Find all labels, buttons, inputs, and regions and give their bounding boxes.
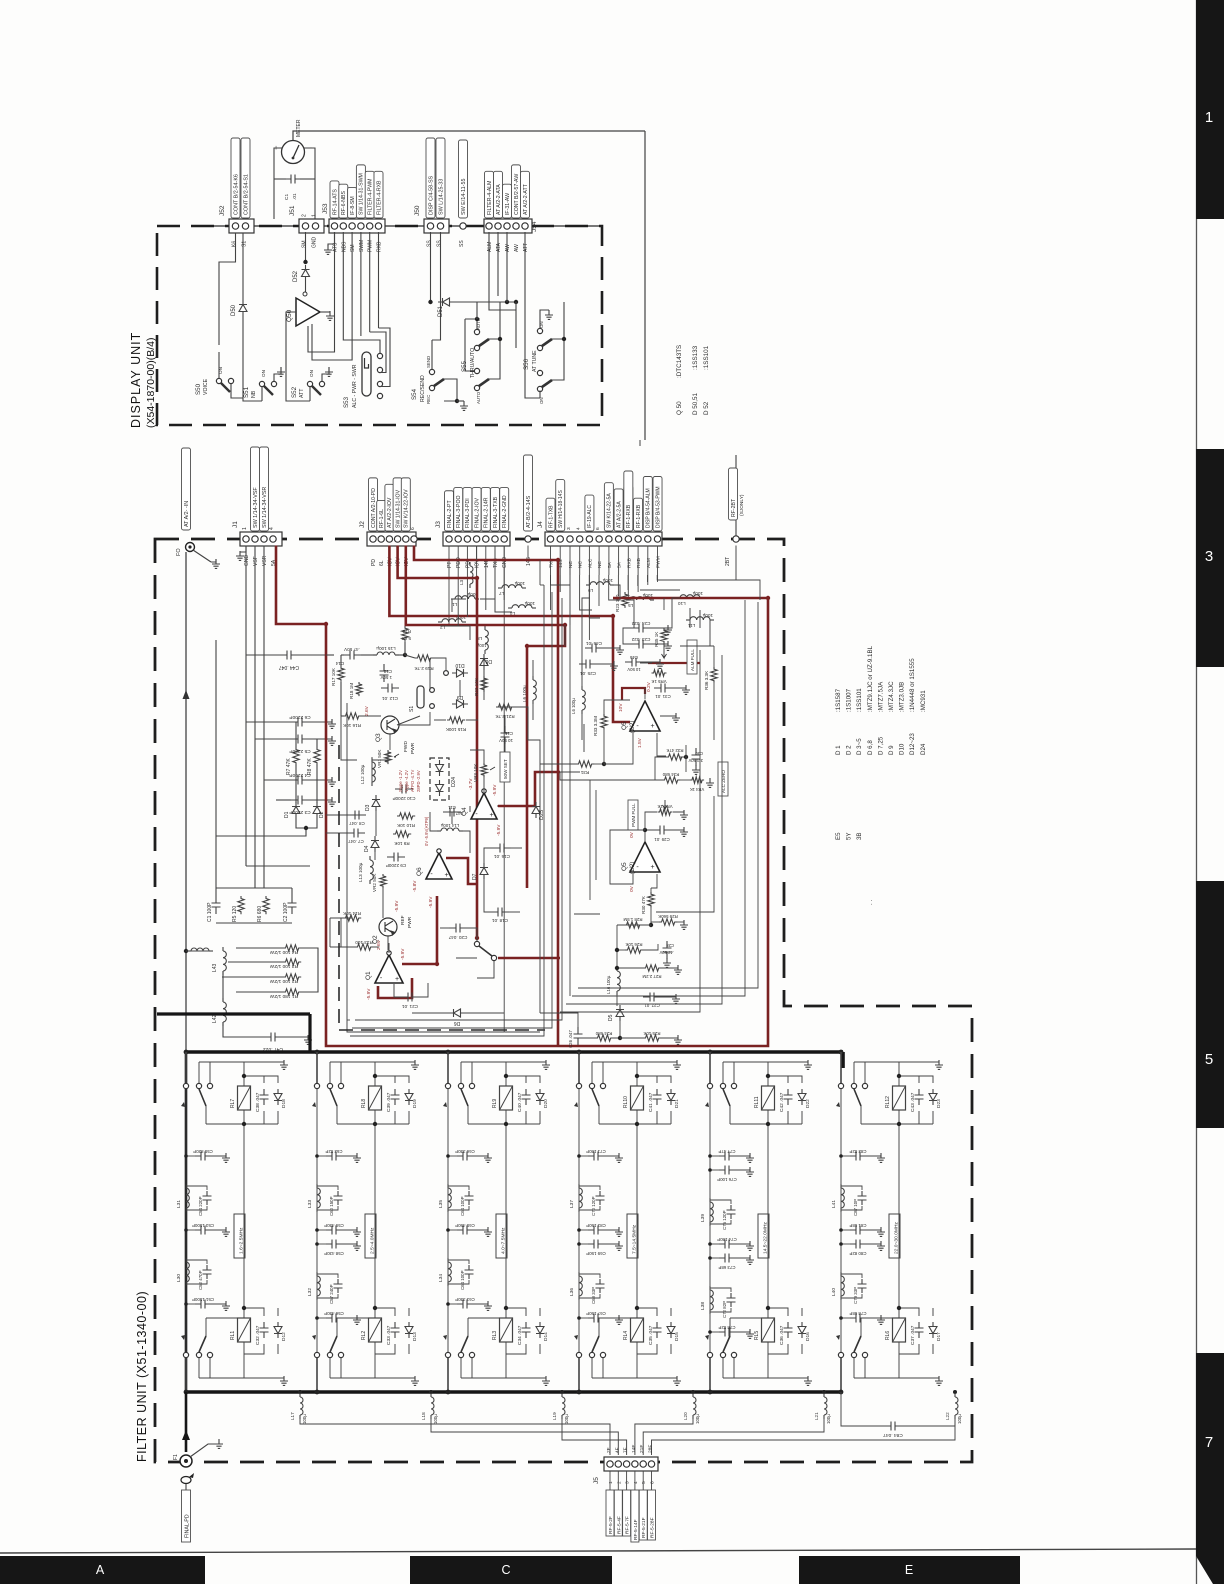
resistor R28 1.5M xyxy=(624,922,642,928)
svg-text:D16: D16 xyxy=(805,1332,811,1341)
svg-text:GND: GND xyxy=(502,557,508,569)
svg-text:PT: PT xyxy=(447,562,453,568)
wire filter top bus xyxy=(186,1050,843,1054)
svg-text:C68 33P: C68 33P xyxy=(591,1287,596,1304)
wire left mesh xyxy=(246,721,291,723)
wire channel 4 ladder xyxy=(578,1089,580,1352)
svg-text:FINAL-PD: FINAL-PD xyxy=(185,1514,191,1538)
wire maroon E xyxy=(414,546,558,1047)
svg-text:C66 330P: C66 330P xyxy=(455,1149,475,1154)
capacitor C52 470P xyxy=(203,1265,212,1279)
svg-text:SW 1/14-34-VSF: SW 1/14-34-VSF xyxy=(253,487,259,528)
svg-text:RL12: RL12 xyxy=(885,1096,891,1108)
svg-text:C52 470P: C52 470P xyxy=(198,1270,203,1290)
resistor R4 100 1/2W xyxy=(283,945,301,951)
boxed label ALM FULL xyxy=(687,640,697,674)
svg-text:(2/2): (2/2) xyxy=(630,721,636,733)
capacitor C22 100u xyxy=(581,686,583,690)
diode D17 xyxy=(929,1327,937,1334)
svg-text:CONT B/2-54-K6: CONT B/2-54-K6 xyxy=(233,174,239,215)
svg-text:FINAL-2-IOV: FINAL-2-IOV xyxy=(474,497,480,528)
svg-text:D12~23: D12~23 xyxy=(909,733,916,755)
svg-text:PWM FULL: PWM FULL xyxy=(631,803,636,827)
diode D4 xyxy=(371,841,379,848)
svg-text:J5: J5 xyxy=(593,1477,600,1484)
switch channel 4 bottom xyxy=(576,1352,581,1357)
svg-text:SW K/14-22-5A: SW K/14-22-5A xyxy=(607,493,613,528)
svg-text:SS: SS xyxy=(437,240,443,247)
svg-text:14F: 14F xyxy=(631,1445,637,1453)
label IF-8-SM xyxy=(348,187,357,218)
svg-text:L10: L10 xyxy=(678,601,686,606)
capacitor C1 .01 xyxy=(284,178,302,180)
svg-text:NC: NC xyxy=(578,561,584,568)
svg-text:6: 6 xyxy=(650,1481,656,1484)
wire left rail xyxy=(185,552,187,1052)
svg-text:6: 6 xyxy=(595,527,601,530)
svg-text::MTZ9.1JC or UZ-9.1BL: :MTZ9.1JC or UZ-9.1BL xyxy=(867,645,874,712)
switch channel 5 top xyxy=(708,1050,713,1055)
svg-text:C60 150P: C60 150P xyxy=(329,1196,334,1216)
capacitor C24 .022 xyxy=(632,627,650,629)
svg-text:D24: D24 xyxy=(920,743,927,755)
svg-text:ATA: ATA xyxy=(496,242,502,252)
svg-text:D 2: D 2 xyxy=(846,745,853,755)
capacitor C65 450P xyxy=(457,1229,473,1231)
svg-text:RL5: RL5 xyxy=(754,1331,760,1340)
wire Q5b mesh xyxy=(645,830,653,842)
svg-text:5Y: 5Y xyxy=(846,832,853,840)
capacitor C30 3.3 50V xyxy=(692,748,701,766)
svg-text:S52: S52 xyxy=(291,386,298,398)
svg-text:FINAL-2-14R: FINAL-2-14R xyxy=(484,497,490,528)
wire channel 2 bottom links xyxy=(375,1308,395,1316)
switch channel 2 bottom xyxy=(314,1352,319,1357)
svg-text:D10: D10 xyxy=(455,662,464,668)
svg-text:C72 82P: C72 82P xyxy=(722,1301,727,1318)
svg-text:R28 1.5M: R28 1.5M xyxy=(623,917,642,922)
relay RL5 xyxy=(762,1318,775,1342)
junction left rail xyxy=(184,949,188,953)
svg-text:D7: D7 xyxy=(472,873,478,880)
svg-text::1SS133: :1SS133 xyxy=(692,345,699,370)
svg-text:C9 2200P: C9 2200P xyxy=(386,863,406,868)
svg-text:AT A/2-2-ATA: AT A/2-2-ATA xyxy=(496,184,502,215)
capacitor C51 1500P xyxy=(195,1303,211,1305)
label FINAL-3-POO xyxy=(454,488,463,531)
svg-text:R27 2.2M: R27 2.2M xyxy=(642,974,661,979)
svg-text:C6 2200P: C6 2200P xyxy=(289,714,310,720)
svg-text:S1: S1 xyxy=(242,241,248,247)
svg-text:100µ: 100µ xyxy=(564,1414,569,1424)
svg-text:D4: D4 xyxy=(364,845,370,852)
index bar bottom A xyxy=(0,1556,205,1584)
capacitor C59 430P xyxy=(326,1229,342,1231)
wire J50 down xyxy=(430,232,432,302)
wire L18 to J5 xyxy=(431,1415,618,1455)
svg-text:IF-31-AW: IF-31-AW xyxy=(505,193,511,215)
connector J51 xyxy=(299,219,324,233)
svg-text:R5 120: R5 120 xyxy=(232,906,238,922)
svg-text:RF-1-6L: RF-1-6L xyxy=(379,509,385,528)
wire maroon J xyxy=(498,957,560,960)
svg-text:D 3~5: D 3~5 xyxy=(856,738,863,755)
capacitor C64 100P xyxy=(465,1191,474,1205)
svg-text:FINAL-3-TXB: FINAL-3-TXB xyxy=(493,496,499,528)
svg-text:C: C xyxy=(501,1563,510,1577)
label RF-5-14F xyxy=(631,1490,639,1542)
svg-text:C35 .047: C35 .047 xyxy=(648,1325,654,1345)
label CONT B/2-57-AW xyxy=(512,165,521,218)
capacitor C12 .01 xyxy=(381,687,399,689)
svg-text:AW: AW xyxy=(514,244,520,252)
svg-text:D13: D13 xyxy=(412,1332,418,1341)
svg-text:D 7,25: D 7,25 xyxy=(877,736,884,755)
label FILTER-4-ALM xyxy=(485,171,494,218)
svg-text:L11: L11 xyxy=(688,623,696,628)
svg-text:C34 .047: C34 .047 xyxy=(517,1325,523,1345)
wire J4 bundle xyxy=(550,546,552,576)
svg-text:R6 680: R6 680 xyxy=(257,906,263,922)
inductor L32 xyxy=(316,1272,318,1276)
label AT-B/2-4-14S xyxy=(524,455,533,531)
svg-text:CONT B/2-54-S1: CONT B/2-54-S1 xyxy=(243,174,249,215)
capacitor C62 82P xyxy=(326,1155,342,1157)
svg-text:AUTO: AUTO xyxy=(476,391,481,404)
transistor Q2 xyxy=(379,918,397,936)
svg-text:VR4 1K: VR4 1K xyxy=(690,787,705,792)
svg-text:R26 10K: R26 10K xyxy=(625,942,642,947)
svg-text:SEND: SEND xyxy=(426,356,431,368)
svg-text:R13 100: R13 100 xyxy=(355,940,373,945)
inductor L43 xyxy=(222,947,224,951)
resistor R33 3.3M xyxy=(601,714,607,730)
switch channel 2 top xyxy=(315,1050,320,1055)
capacitor C35 .047 xyxy=(653,1322,662,1338)
label RF-1-RXB xyxy=(634,498,643,531)
label AT A/2-2-RXB xyxy=(624,486,633,531)
inductor L17 100u xyxy=(299,1392,301,1396)
relay RL10 xyxy=(631,1086,644,1110)
svg-text:AT A/2- -IN: AT A/2- -IN xyxy=(184,501,190,527)
wire ALC mesh xyxy=(680,756,686,758)
svg-text:10 50V: 10 50V xyxy=(499,738,513,743)
potentiometer VR6 1K xyxy=(658,809,673,815)
capacitor C5 2200P xyxy=(291,738,309,740)
svg-text:RF-5-21F: RF-5-21F xyxy=(641,1517,647,1538)
diode D18 xyxy=(274,1094,282,1101)
svg-text:L13 100µ: L13 100µ xyxy=(358,862,363,882)
inductor L31 xyxy=(185,1184,187,1188)
svg-text:. .: . . xyxy=(867,900,874,905)
svg-text:SWM: SWM xyxy=(359,240,365,252)
svg-text:L32: L32 xyxy=(307,1288,313,1296)
svg-text:L39: L39 xyxy=(700,1214,706,1222)
svg-text:R22 10K: R22 10K xyxy=(474,677,479,696)
label 14.5~22.0MHz xyxy=(758,1214,769,1258)
svg-text:A: A xyxy=(96,1563,105,1577)
svg-text:RF-5-14F: RF-5-14F xyxy=(633,1519,639,1540)
svg-text:D10: D10 xyxy=(899,743,906,755)
svg-text:-5.8V: -5.8V xyxy=(412,880,418,892)
capacitor C23 .022 xyxy=(632,643,650,645)
inductor L11 100u xyxy=(686,617,714,620)
svg-text:C46 .01: C46 .01 xyxy=(586,641,603,646)
svg-text:C12 .01: C12 .01 xyxy=(382,696,399,701)
svg-text:FILTER-4-RXB: FILTER-4-RXB xyxy=(376,180,382,215)
wire maroon K xyxy=(622,688,645,700)
svg-text:C77 47P: C77 47P xyxy=(718,1149,735,1154)
svg-text:RL2: RL2 xyxy=(361,1331,367,1340)
svg-text:L9: L9 xyxy=(588,588,594,593)
label CONT A/2-10-PD xyxy=(369,478,378,531)
capacitor C66 330P xyxy=(457,1155,473,1157)
wire L22 to J5 xyxy=(652,1415,956,1455)
capacitor C70 120P xyxy=(596,1191,605,1205)
label AT A/2-2-ATT xyxy=(521,171,530,218)
svg-text:D23: D23 xyxy=(936,1099,942,1108)
svg-text:PDO: PDO xyxy=(456,557,462,568)
svg-text:CONT B/2-57-AW: CONT B/2-57-AW xyxy=(514,174,520,215)
capacitor C27 .01 xyxy=(643,996,661,998)
svg-text:C59 430P: C59 430P xyxy=(324,1223,344,1228)
inductor L30 xyxy=(185,1258,187,1262)
svg-text:D51: D51 xyxy=(438,305,444,317)
svg-text:R24 680: R24 680 xyxy=(595,1031,612,1036)
capacitor C32 .047 xyxy=(260,1322,269,1338)
resistor R16 10K xyxy=(343,713,361,719)
svg-text:S51: S51 xyxy=(243,386,250,398)
resistor R6 680 xyxy=(263,896,269,914)
inductor L3 100u xyxy=(469,562,471,566)
relay RL8 xyxy=(369,1086,382,1110)
wire channel 4 top links xyxy=(637,1076,657,1083)
svg-text:1: 1 xyxy=(1205,109,1213,126)
svg-text:Q5: Q5 xyxy=(621,721,628,730)
svg-text:REF: REF xyxy=(400,915,406,925)
svg-text:RL1: RL1 xyxy=(230,1331,236,1340)
svg-text::1SS101: :1SS101 xyxy=(703,345,710,370)
inductor L36 xyxy=(578,1272,580,1276)
svg-text::MTZ3.0JB: :MTZ3.0JB xyxy=(899,682,906,712)
capacitor C2 100P xyxy=(288,896,297,914)
resistor R13 100 xyxy=(355,944,373,950)
svg-text:D 6,8: D 6,8 xyxy=(867,740,874,755)
wire resistor rails xyxy=(301,948,318,992)
svg-text:D8: D8 xyxy=(485,658,492,664)
wire J51 down xyxy=(305,232,307,262)
label FINAL-2-PT xyxy=(445,491,454,531)
boxed label 50W SET xyxy=(500,752,510,782)
svg-text:NC: NC xyxy=(568,561,574,568)
svg-text:R3 100 1/2W: R3 100 1/2W xyxy=(270,963,298,969)
svg-text:1.5V: 1.5V xyxy=(637,737,643,748)
resistor R29 560K xyxy=(659,919,677,925)
capacitor C53 1500P xyxy=(195,1229,211,1231)
svg-text:RXB: RXB xyxy=(636,558,642,568)
label RF-5-2F xyxy=(606,1490,614,1536)
resistor R18 1M xyxy=(356,682,362,696)
svg-text:C79 33P: C79 33P xyxy=(853,1287,858,1304)
diode D25 xyxy=(532,807,540,814)
svg-text:.47 50V: .47 50V xyxy=(343,647,360,652)
svg-text:DISP B/4-53-PWM: DISP B/4-53-PWM xyxy=(655,486,661,528)
transistor Q50 (inverter) xyxy=(296,298,320,326)
capacitor C78 82P xyxy=(719,1331,735,1333)
svg-text:100µ: 100µ xyxy=(695,1414,700,1424)
label FINAL-2-14R xyxy=(481,488,490,531)
resistor R34 680 xyxy=(662,777,680,783)
inductor L37 xyxy=(578,1184,580,1188)
label SW K/14-22-5A xyxy=(604,483,613,531)
svg-text:0V: 0V xyxy=(629,885,635,892)
capacitor C74 180P xyxy=(719,1243,735,1245)
capacitor C40 .047 xyxy=(522,1089,531,1105)
wire channel 5 bottom links xyxy=(768,1308,788,1316)
resistor R26 10K xyxy=(625,947,643,953)
svg-text:C38 .047: C38 .047 xyxy=(255,1092,261,1112)
diode D19 xyxy=(405,1094,413,1101)
svg-text:C4 2200P: C4 2200P xyxy=(289,772,310,778)
svg-text:ALM FULL: ALM FULL xyxy=(690,649,695,671)
capacitor C6 2200P xyxy=(291,721,309,723)
wire maroon B xyxy=(398,546,477,939)
relay RL2 xyxy=(369,1318,382,1342)
svg-text:L12 100µ: L12 100µ xyxy=(360,764,365,784)
svg-text:SW E/14-11-55: SW E/14-11-55 xyxy=(461,179,467,215)
svg-text:C78 82P: C78 82P xyxy=(718,1325,735,1330)
capacitor C55 820P xyxy=(195,1155,211,1157)
svg-text:C13: C13 xyxy=(383,669,392,674)
svg-text:AT A/2-2-5A: AT A/2-2-5A xyxy=(616,501,622,528)
wire channel 6 top links xyxy=(899,1076,919,1083)
label FINAL-3-TXB xyxy=(491,488,500,531)
svg-text:R20: R20 xyxy=(402,629,411,634)
label AT A/2-2-ATA xyxy=(494,171,503,218)
inner dashed partition xyxy=(339,745,545,1030)
connector J53 xyxy=(329,219,385,233)
svg-text:FINAL-2-GND: FINAL-2-GND xyxy=(502,495,508,528)
svg-text:C2 100P: C2 100P xyxy=(283,902,289,922)
svg-text:E5: E5 xyxy=(835,832,842,840)
svg-text:R4 100 1/2W: R4 100 1/2W xyxy=(270,949,298,955)
label SW 1/14-31-IOV xyxy=(393,478,402,531)
svg-text:C65 450P: C65 450P xyxy=(455,1223,475,1228)
svg-text:Q6: Q6 xyxy=(416,867,423,876)
svg-text:R30 47K: R30 47K xyxy=(641,895,646,914)
svg-text:D 50,51: D 50,51 xyxy=(692,392,699,415)
inductor L7 100u xyxy=(498,585,526,588)
diode D5 xyxy=(616,1010,624,1017)
svg-text:Q50: Q50 xyxy=(286,309,293,322)
svg-text:L7: L7 xyxy=(499,591,505,596)
capacitor C39 .047 xyxy=(391,1089,400,1105)
svg-text:AT TUNE: AT TUNE xyxy=(532,350,538,372)
inductor L22 100u xyxy=(954,1392,956,1396)
label DISP C/4-58-SS xyxy=(426,138,435,218)
inductor L33 xyxy=(316,1184,318,1188)
diode D2 xyxy=(313,807,321,814)
svg-text:RL7: RL7 xyxy=(230,1099,236,1108)
wire channel 2 ladder xyxy=(316,1089,318,1352)
inductor L4 100u xyxy=(508,605,536,608)
svg-text:C30: C30 xyxy=(695,751,703,756)
svg-text:SS: SS xyxy=(427,240,433,247)
wire maroon loop A xyxy=(276,546,768,1047)
svg-text:CONT A/2-10-PD: CONT A/2-10-PD xyxy=(371,488,377,528)
svg-text:RF-2BT: RF-2BT xyxy=(731,498,737,517)
resistor R27 2.2M xyxy=(643,965,661,971)
svg-text:IF-19-ALC: IF-19-ALC xyxy=(587,505,593,528)
svg-text:C67 150P: C67 150P xyxy=(586,1311,606,1316)
svg-text:RXB: RXB xyxy=(626,558,632,568)
svg-text:DISP B/4-54-ALM: DISP B/4-54-ALM xyxy=(646,488,652,528)
svg-text:(SJONLY): (SJONLY) xyxy=(739,494,745,516)
capacitor C47 .022 xyxy=(264,1036,282,1038)
capacitor C57 240P xyxy=(334,1279,343,1293)
svg-text:4: 4 xyxy=(269,527,275,530)
wire filter bottom bus xyxy=(186,1390,841,1394)
svg-text:Q5: Q5 xyxy=(621,862,628,871)
ground J53 xyxy=(324,245,332,254)
svg-text:R2 100 1/2W: R2 100 1/2W xyxy=(270,978,298,984)
svg-text:D 52: D 52 xyxy=(703,401,710,415)
svg-text:R33 3.3M: R33 3.3M xyxy=(593,716,598,736)
svg-text:D18: D18 xyxy=(281,1099,287,1108)
svg-text:J1: J1 xyxy=(232,521,239,528)
svg-text:ON: ON xyxy=(261,370,266,377)
svg-text:C58 430P: C58 430P xyxy=(324,1251,344,1256)
resistor R22 10K xyxy=(481,676,487,692)
capacitor C1 100P xyxy=(212,896,221,914)
capacitor C79 33P xyxy=(858,1279,867,1293)
svg-text:NC: NC xyxy=(597,561,603,568)
svg-text:C73 68P: C73 68P xyxy=(718,1265,735,1270)
capacitor C63 330P xyxy=(457,1303,473,1305)
inductor L39 xyxy=(709,1198,711,1202)
resistor R21 2.7K xyxy=(496,704,514,710)
resistor R1 180 1/2W xyxy=(283,989,301,995)
capacitor C38 .047 xyxy=(260,1089,269,1105)
wire channel 6 bottom links xyxy=(899,1308,919,1316)
diode D20 xyxy=(536,1094,544,1101)
svg-text:C23 .022: C23 .022 xyxy=(631,637,650,642)
label RF-5-21F xyxy=(639,1490,647,1540)
wire lower right mesh xyxy=(617,924,651,926)
svg-text:10V: 10V xyxy=(618,703,624,712)
svg-text:RF-5-2F: RF-5-2F xyxy=(608,1516,614,1534)
label FINAL-2-IOV xyxy=(472,488,481,531)
svg-text:D14: D14 xyxy=(543,1332,549,1341)
svg-text:D22: D22 xyxy=(805,1099,811,1108)
svg-text:VR5 1K: VR5 1K xyxy=(651,679,666,684)
svg-text:S53: S53 xyxy=(343,396,350,408)
svg-text:C18 .01: C18 .01 xyxy=(492,918,509,923)
svg-text:2BT: 2BT xyxy=(725,557,731,566)
svg-text:+: + xyxy=(650,864,654,871)
wire left verticals xyxy=(245,546,247,867)
diode D16 xyxy=(798,1327,806,1334)
svg-text:FILTER UNIT (X51-1340-00): FILTER UNIT (X51-1340-00) xyxy=(135,1291,149,1462)
label DISP B/4-53-PWM xyxy=(653,477,662,532)
resistor R36 3.3K xyxy=(711,667,717,683)
inductor L9 100u xyxy=(586,582,614,585)
diode D8 xyxy=(480,659,488,666)
wire 14S down xyxy=(528,546,540,561)
svg-text:C41 .047: C41 .047 xyxy=(648,1092,654,1112)
svg-text:C42 .047: C42 .047 xyxy=(779,1092,785,1112)
resistor R9 10K xyxy=(393,831,411,837)
